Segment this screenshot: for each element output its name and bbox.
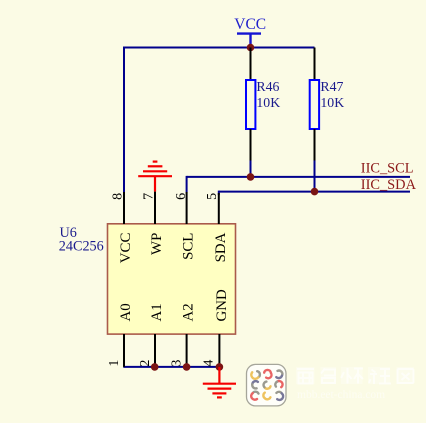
svg-text:A2: A2 <box>181 303 197 321</box>
wire (left vertical from VCC rail to U6 pin 8) <box>123 47 125 193</box>
pin 7 (WP) <box>154 192 156 224</box>
svg-text:10K: 10K <box>256 95 280 110</box>
pin 1 (A0) <box>123 334 125 367</box>
junction (pin 2 / ground bus) <box>151 363 159 371</box>
svg-text:mbb.eet-china.com: mbb.eet-china.com <box>297 389 385 401</box>
wire (U6 pin 6 vertical to IIC_SCL) <box>186 176 188 193</box>
power VCC <box>234 16 266 48</box>
pin 3 (A2) <box>186 334 188 367</box>
svg-text:R47: R47 <box>320 79 343 94</box>
svg-text:5: 5 <box>205 193 220 200</box>
svg-text:VCC: VCC <box>234 16 266 33</box>
svg-text:7: 7 <box>142 193 157 200</box>
resistor R47 <box>310 48 344 161</box>
svg-text:SCL: SCL <box>181 233 197 260</box>
svg-text:6: 6 <box>174 193 189 200</box>
svg-text:10K: 10K <box>320 95 344 110</box>
junction (pin 4 / ground bus) <box>216 363 224 371</box>
wire (U6 pin 5 stub to IIC_SDA) <box>218 191 220 195</box>
resistor R46 <box>246 48 280 161</box>
svg-text:SDA: SDA <box>213 232 229 262</box>
pin 6 (SCL) <box>186 192 188 224</box>
svg-text:2: 2 <box>138 360 153 367</box>
IC U6 24C256 <box>59 192 236 367</box>
svg-text:24C256: 24C256 <box>59 238 104 254</box>
svg-text:1: 1 <box>107 360 122 367</box>
ground (at U6 pin 7 WP) <box>138 162 172 192</box>
svg-text:IIC_SDA: IIC_SDA <box>361 177 417 193</box>
svg-text:R46: R46 <box>256 79 279 94</box>
ground (bottom, at U6 pin 4) <box>203 367 236 398</box>
svg-text:A0: A0 <box>118 303 134 321</box>
svg-text:4: 4 <box>202 360 217 367</box>
pin 4 (GND) <box>218 334 220 367</box>
junction (pin 3 / ground bus) <box>183 363 191 371</box>
wire (VCC rail top horizontal) <box>124 47 315 49</box>
svg-text:8: 8 <box>111 193 126 200</box>
svg-text:3: 3 <box>170 360 185 367</box>
junction (VCC rail / R46) <box>247 44 255 52</box>
wire (R47 bottom to IIC_SDA) <box>314 160 316 192</box>
watermark logo (mbb.eet-china.com) <box>247 364 415 406</box>
pin 8 (VCC) <box>123 192 125 224</box>
pin 5 (SDA) <box>218 193 220 224</box>
svg-text:VCC: VCC <box>118 233 134 264</box>
junction (R47 / IIC_SDA) <box>311 188 319 196</box>
wire (IIC_SDA horizontal) <box>219 191 410 193</box>
svg-text:GND: GND <box>214 289 230 322</box>
svg-text:WP: WP <box>149 233 165 255</box>
junction (R46 / IIC_SCL) <box>247 173 255 181</box>
pin 2 (A1) <box>154 334 156 367</box>
svg-text:A1: A1 <box>149 303 165 321</box>
wire (IIC_SCL horizontal) <box>187 176 410 178</box>
svg-text:IIC_SCL: IIC_SCL <box>361 160 414 176</box>
wire (R46 bottom to IIC_SCL) <box>250 160 252 177</box>
wire (bottom ground bus horizontal) <box>123 366 219 368</box>
